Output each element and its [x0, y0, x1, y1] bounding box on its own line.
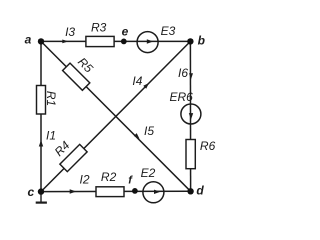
- svg-text:E3: E3: [161, 24, 176, 38]
- current arrow I3: [62, 40, 68, 44]
- svg-text:I3: I3: [65, 25, 75, 39]
- resistor R1: [37, 86, 46, 115]
- current arrow I5: [134, 133, 140, 139]
- svg-text:I6: I6: [178, 66, 188, 80]
- node f: [132, 188, 138, 194]
- resistor R5: [63, 63, 90, 90]
- wire top a-b: [41, 40, 190, 42]
- EMF source ER6: [181, 104, 201, 124]
- svg-text:b: b: [198, 34, 205, 48]
- wire diagonal a-d: [41, 41, 191, 191]
- node a: [38, 38, 44, 44]
- ground: [36, 192, 47, 203]
- svg-text:R2: R2: [101, 170, 117, 184]
- svg-text:d: d: [196, 184, 204, 198]
- wire right b-d: [189, 41, 191, 191]
- svg-text:E2: E2: [141, 166, 156, 180]
- svg-text:e: e: [122, 24, 129, 38]
- wire diagonal c-b: [41, 41, 190, 191]
- resistor R4: [60, 144, 87, 171]
- current arrow I4: [143, 83, 149, 89]
- node c: [38, 188, 44, 194]
- node b: [187, 38, 193, 44]
- node d: [187, 188, 193, 194]
- current arrow I2: [70, 189, 77, 194]
- svg-text:I5: I5: [144, 124, 154, 138]
- current arrow I6: [189, 73, 193, 79]
- svg-text:ER6: ER6: [170, 90, 194, 104]
- resistor R2: [96, 187, 124, 197]
- svg-text:R1: R1: [44, 91, 58, 106]
- wire bottom c-d: [41, 190, 191, 192]
- svg-text:I1: I1: [46, 129, 56, 143]
- svg-text:R3: R3: [91, 20, 107, 34]
- svg-text:R6: R6: [200, 139, 216, 153]
- EMF source E2: [143, 182, 164, 203]
- resistor R3: [86, 36, 114, 46]
- svg-text:I4: I4: [132, 74, 142, 88]
- node e: [121, 39, 127, 45]
- EMF source E3: [137, 32, 158, 53]
- svg-text:c: c: [27, 185, 34, 199]
- svg-text:a: a: [25, 32, 32, 46]
- svg-text:I2: I2: [79, 173, 89, 187]
- current arrow I1: [39, 140, 43, 147]
- resistor R6: [186, 140, 195, 169]
- wire left a-c: [40, 41, 42, 191]
